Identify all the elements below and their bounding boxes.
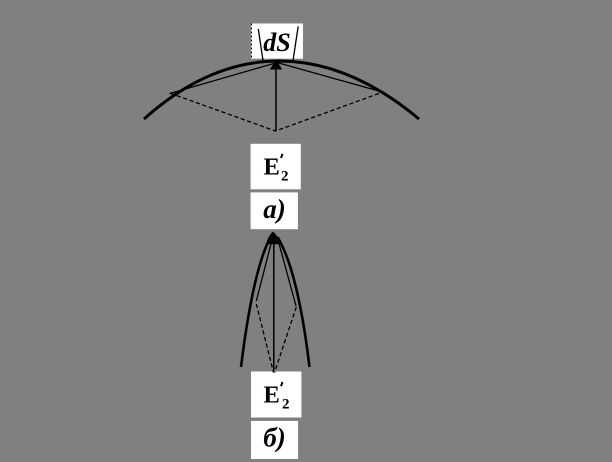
svg-text:2: 2 — [281, 169, 289, 185]
svg-text:E: E — [264, 154, 280, 181]
svg-text:2: 2 — [282, 396, 290, 412]
svg-text:а): а) — [263, 194, 286, 224]
svg-text:б): б) — [263, 423, 285, 453]
svg-text:dS: dS — [263, 28, 290, 57]
svg-text:E: E — [264, 382, 280, 409]
